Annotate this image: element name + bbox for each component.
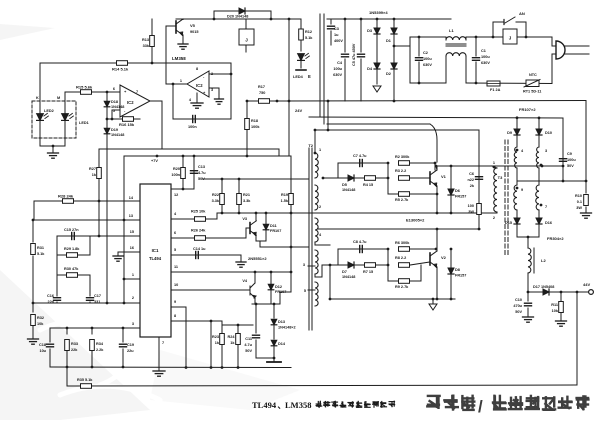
svg-text:7: 7 <box>136 90 138 94</box>
svg-text:FR304×2: FR304×2 <box>547 236 564 241</box>
ground <box>113 255 123 257</box>
node <box>393 45 396 48</box>
svg-text:D18: D18 <box>111 100 118 104</box>
svg-text:R16 15k: R16 15k <box>119 122 135 127</box>
svg-text:C19: C19 <box>127 343 134 347</box>
resistor R24 <box>236 334 241 345</box>
svg-text:NTC: NTC <box>529 73 537 77</box>
resistor R32 <box>32 303 34 312</box>
capacitor C11 <box>255 304 257 333</box>
svg-text:D14: D14 <box>278 342 286 346</box>
wire <box>64 92 66 101</box>
wire <box>338 248 388 250</box>
svg-text:D19: D19 <box>111 128 118 132</box>
wire <box>319 14 321 117</box>
resistor R9 <box>388 280 398 282</box>
wire <box>255 213 257 221</box>
wire <box>387 163 389 194</box>
svg-text:3W: 3W <box>468 210 474 214</box>
svg-text:10k: 10k <box>552 309 559 313</box>
svg-text:D7: D7 <box>342 270 347 274</box>
winding T3 sec3 <box>516 168 518 185</box>
capacitor C16 <box>56 275 58 296</box>
svg-text:4.7u: 4.7u <box>244 343 252 347</box>
diode D8 <box>450 249 452 299</box>
svg-text:R8 2.2: R8 2.2 <box>395 256 406 260</box>
fuse F1 <box>487 81 500 86</box>
svg-text:R15 5.6k: R15 5.6k <box>76 85 93 90</box>
ground <box>191 102 203 104</box>
resistor R5 <box>388 193 398 195</box>
svg-text:V5: V5 <box>190 23 196 28</box>
wire <box>436 166 438 170</box>
svg-text:100n: 100n <box>171 173 180 177</box>
resistor R3 <box>399 176 410 181</box>
svg-text:9: 9 <box>174 300 176 304</box>
svg-text:2: 2 <box>132 296 134 300</box>
resistor R27 <box>97 168 102 179</box>
diode D18 <box>106 92 108 119</box>
wire <box>216 213 218 219</box>
svg-text:LED4: LED4 <box>293 75 304 79</box>
transistor V2 <box>429 253 431 265</box>
svg-text:R6 300k: R6 300k <box>395 241 410 245</box>
svg-text:6: 6 <box>174 231 176 235</box>
resistor R2 <box>399 161 410 166</box>
resistor R12 <box>300 19 302 29</box>
svg-text:1N4148×2: 1N4148×2 <box>278 326 296 330</box>
ground <box>581 212 592 214</box>
inductor L2 <box>527 237 529 248</box>
resistor R35 <box>81 384 92 389</box>
plug <box>551 37 553 46</box>
svg-text:T2: T2 <box>308 143 313 148</box>
node <box>562 180 565 183</box>
diode D13 <box>273 304 275 318</box>
wire <box>89 236 91 255</box>
node <box>122 366 125 369</box>
terminal 44V <box>589 290 594 295</box>
wire mains bottom rail <box>247 100 586 103</box>
diode D4 <box>374 63 380 69</box>
wire <box>278 149 280 156</box>
wire <box>338 162 388 164</box>
ground <box>556 320 567 322</box>
resistor R17 <box>259 99 270 104</box>
svg-text:2: 2 <box>319 205 321 209</box>
svg-text:2: 2 <box>493 216 495 220</box>
svg-text:R17: R17 <box>258 85 265 89</box>
svg-text:1N4148: 1N4148 <box>342 188 355 192</box>
wire <box>39 63 41 101</box>
svg-text:C10: C10 <box>515 298 522 302</box>
diode D11 <box>265 213 267 241</box>
svg-text:D13: D13 <box>278 320 285 324</box>
svg-text:D16: D16 <box>545 221 552 225</box>
svg-text:R27: R27 <box>89 167 96 171</box>
wire 24V cap branch <box>562 118 564 181</box>
svg-text:9015: 9015 <box>190 30 198 34</box>
svg-text:D10: D10 <box>545 131 552 135</box>
svg-text:R26 24k: R26 24k <box>191 229 206 233</box>
svg-text:D9: D9 <box>507 131 512 135</box>
node <box>327 100 330 103</box>
resistor R28 <box>63 199 74 204</box>
ground <box>432 299 434 304</box>
diode D14 <box>273 326 275 339</box>
capacitor C17 <box>89 275 91 296</box>
wire <box>516 210 518 217</box>
svg-text:D5: D5 <box>342 183 347 187</box>
resistor R33 <box>66 328 68 334</box>
svg-text:D15: D15 <box>505 221 512 225</box>
wire C15 row / pin15 <box>57 235 140 237</box>
svg-text:8: 8 <box>174 314 176 318</box>
diode D16 <box>536 218 542 224</box>
wire pin9 <box>171 306 186 308</box>
node <box>360 18 363 21</box>
svg-text:R35 5.1k: R35 5.1k <box>77 378 93 382</box>
node <box>387 162 390 165</box>
svg-text:100u: 100u <box>481 55 490 59</box>
node <box>475 36 478 39</box>
wire pin7 ground <box>158 337 160 371</box>
svg-text:3: 3 <box>132 322 134 326</box>
wire <box>434 163 436 170</box>
svg-text:5: 5 <box>304 289 306 293</box>
svg-text:C7 4.7u: C7 4.7u <box>353 154 367 158</box>
diode D9 <box>514 129 520 135</box>
diode D17 <box>528 291 589 293</box>
svg-text:TL494: TL494 <box>252 400 277 410</box>
wire <box>256 240 266 242</box>
wire <box>237 325 239 368</box>
svg-text:LED2: LED2 <box>44 109 54 113</box>
svg-text:1: 1 <box>132 273 134 277</box>
node <box>185 366 188 369</box>
diode D10 <box>536 129 542 135</box>
svg-text:5.1k: 5.1k <box>305 36 313 40</box>
svg-text:C9: C9 <box>567 152 572 156</box>
decor <box>0 24 300 420</box>
wire output return <box>576 292 578 385</box>
svg-text:TL494: TL494 <box>149 256 162 261</box>
svg-text:15: 15 <box>130 230 134 234</box>
LED box dashed <box>32 101 76 138</box>
wire <box>185 307 187 368</box>
svg-text:5: 5 <box>174 248 176 252</box>
wire <box>56 236 58 275</box>
op-amp IC2b <box>187 71 209 97</box>
node <box>492 36 495 39</box>
node <box>123 219 126 222</box>
capacitor C19 <box>122 328 124 342</box>
capacitor C18 <box>49 328 51 342</box>
inductor L1 common-mode choke <box>446 37 466 40</box>
ground <box>28 338 39 340</box>
capacitor C1 <box>475 37 477 56</box>
wire <box>330 264 388 266</box>
wire <box>230 63 232 119</box>
svg-text:1: 1 <box>319 148 321 152</box>
wire pin3 ground <box>209 87 219 89</box>
svg-text:FR157: FR157 <box>455 195 466 199</box>
svg-text:D20 1N4148: D20 1N4148 <box>227 15 248 19</box>
svg-text:V3: V3 <box>242 217 247 221</box>
wire top rail <box>176 18 301 20</box>
svg-text:470u: 470u <box>513 304 522 308</box>
wire <box>517 180 586 182</box>
ground <box>153 370 165 372</box>
node <box>255 303 258 306</box>
wire rail C <box>202 178 308 180</box>
winding T3 sec4 <box>538 168 540 185</box>
node <box>32 219 35 222</box>
wire drive line B <box>318 228 480 230</box>
svg-text:3.3k: 3.3k <box>212 199 220 203</box>
wire bottom rail <box>50 366 291 369</box>
node <box>246 155 249 158</box>
node <box>32 302 35 305</box>
resistor R1 100 3W <box>477 204 482 215</box>
resistor R20 <box>182 156 184 189</box>
resistor R19 <box>290 156 292 193</box>
svg-text:T3: T3 <box>498 175 503 180</box>
wire <box>291 246 308 248</box>
svg-text:R24: R24 <box>228 335 236 339</box>
svg-text:/: / <box>478 397 483 416</box>
svg-text:630V: 630V <box>333 73 342 77</box>
wire R28 row / pin14 <box>34 200 140 202</box>
diode D5 <box>348 175 354 181</box>
svg-text:750: 750 <box>259 91 265 95</box>
relay contact J <box>503 29 517 44</box>
node <box>288 100 291 103</box>
node <box>111 118 114 121</box>
svg-text:C2: C2 <box>423 51 428 55</box>
svg-text:10k: 10k <box>37 322 44 326</box>
svg-text:2.2k: 2.2k <box>96 348 104 352</box>
svg-text:C14 1u: C14 1u <box>193 247 206 251</box>
wire drive line A <box>217 212 497 214</box>
svg-text:LM358: LM358 <box>172 56 186 61</box>
svg-text:33k: 33k <box>143 44 150 48</box>
svg-text:RT1 5D-11: RT1 5D-11 <box>523 90 541 94</box>
wire pin4 ground <box>196 93 198 103</box>
wire emitter node <box>252 303 280 305</box>
wire pin1 <box>124 278 140 280</box>
resistor R6 <box>399 247 410 252</box>
wire <box>436 229 438 251</box>
svg-text:3: 3 <box>211 88 213 92</box>
svg-text:R34: R34 <box>96 342 104 346</box>
resistor R8 <box>399 263 410 268</box>
svg-text:C13: C13 <box>198 165 205 169</box>
resistor R18 <box>246 101 248 156</box>
svg-text:FR157: FR157 <box>455 274 466 278</box>
transformer T3 core <box>504 140 506 255</box>
svg-text:3.3k: 3.3k <box>243 199 251 203</box>
diode D20 <box>213 11 215 19</box>
diode D6 <box>450 166 452 213</box>
winding T2-5 <box>315 282 318 306</box>
svg-text:C3: C3 <box>334 27 339 31</box>
wire rail B +7V <box>124 155 291 157</box>
ground <box>273 358 275 362</box>
node <box>344 18 347 21</box>
wire pin16 ground <box>118 251 140 253</box>
resistor R23 <box>220 334 225 345</box>
svg-text:22u: 22u <box>127 349 134 353</box>
ground <box>178 43 188 45</box>
winding T3 sec2 <box>536 147 539 168</box>
svg-text:630V: 630V <box>423 63 432 67</box>
node <box>182 188 185 191</box>
wire <box>527 273 529 292</box>
wire pin5 / C14 <box>171 254 241 256</box>
svg-text:L1: L1 <box>449 28 454 33</box>
node <box>106 118 109 121</box>
node <box>376 18 379 21</box>
svg-text:R31: R31 <box>37 246 44 250</box>
resistor R11 <box>560 292 562 301</box>
node <box>387 248 390 251</box>
node <box>66 327 69 330</box>
svg-text:LED1: LED1 <box>79 121 89 125</box>
wire long vertical <box>123 156 125 303</box>
svg-text:100u: 100u <box>423 57 432 61</box>
diode D19 <box>106 119 108 149</box>
resistor R21 <box>238 179 240 193</box>
svg-text:7: 7 <box>162 341 164 345</box>
svg-text:D17 1N5408: D17 1N5408 <box>533 285 554 289</box>
svg-text:+7V: +7V <box>151 159 158 163</box>
node <box>91 366 94 369</box>
op-amp IC2a <box>120 85 150 117</box>
resistor R34 <box>91 328 93 334</box>
resistor R30 <box>57 274 90 276</box>
capacitor C10 <box>527 292 529 301</box>
wire <box>40 62 231 64</box>
wire <box>221 321 223 368</box>
resistor R25 <box>195 217 206 222</box>
capacitor C15 <box>71 233 73 240</box>
node <box>238 178 241 181</box>
svg-text:1: 1 <box>180 79 182 83</box>
wire <box>478 130 480 229</box>
svg-text:R14 5.1k: R14 5.1k <box>112 67 129 72</box>
svg-text:50V: 50V <box>515 310 522 314</box>
resistor R10 <box>585 181 587 193</box>
node <box>237 324 240 327</box>
svg-text:100n: 100n <box>188 125 197 129</box>
wire <box>39 127 41 146</box>
wire pin6 / R26 <box>171 237 246 239</box>
wire <box>517 36 552 38</box>
wire line3 <box>315 129 479 131</box>
svg-text:11: 11 <box>174 265 178 269</box>
svg-text:R30 47k: R30 47k <box>64 267 79 271</box>
svg-text:100u: 100u <box>333 67 342 71</box>
svg-text:E13005×2: E13005×2 <box>406 218 425 223</box>
node <box>230 73 233 76</box>
node <box>527 291 530 294</box>
svg-text:L2: L2 <box>541 258 546 263</box>
wire <box>254 272 256 283</box>
ground <box>240 255 242 262</box>
node <box>210 366 213 369</box>
branding text <box>426 396 441 409</box>
transformer T2 core <box>308 148 310 330</box>
svg-text:24V: 24V <box>295 108 302 113</box>
wire <box>150 100 162 102</box>
svg-text:R12: R12 <box>305 30 312 34</box>
LED LED1 <box>64 101 66 113</box>
svg-text:R23: R23 <box>212 335 219 339</box>
node <box>418 36 421 39</box>
svg-text:AN: AN <box>519 11 525 16</box>
wire vertical x291 <box>290 205 292 292</box>
ground <box>215 98 224 100</box>
capacitor C2 <box>416 57 423 59</box>
wire pin12 <box>171 188 194 190</box>
diode D1 <box>393 19 395 27</box>
svg-text:10u: 10u <box>39 349 46 353</box>
svg-text:12: 12 <box>174 193 178 197</box>
svg-text:V1: V1 <box>441 174 447 179</box>
wire <box>585 101 587 182</box>
ground <box>523 316 534 318</box>
resistor R22 <box>221 179 223 193</box>
svg-text:5: 5 <box>113 109 115 113</box>
node <box>527 236 530 239</box>
wire <box>256 357 274 359</box>
ground <box>52 146 54 153</box>
node <box>172 83 175 86</box>
svg-text:C11: C11 <box>245 337 252 341</box>
resistor R29 <box>57 254 90 256</box>
diode D12 <box>270 272 272 303</box>
svg-text:E: E <box>308 74 311 79</box>
svg-text:R4 15: R4 15 <box>363 183 373 187</box>
resistor R13 <box>151 19 153 63</box>
node <box>273 303 276 306</box>
svg-text:3: 3 <box>303 263 305 267</box>
svg-text:0.1: 0.1 <box>577 200 582 204</box>
wire <box>436 165 563 167</box>
node <box>193 155 196 158</box>
wire <box>394 45 410 47</box>
winding T2-3 <box>315 218 318 242</box>
svg-text:D2: D2 <box>386 72 391 76</box>
node <box>246 100 249 103</box>
node <box>66 366 69 369</box>
node <box>213 18 216 21</box>
svg-text:C16: C16 <box>47 294 54 298</box>
svg-text:IC2: IC2 <box>196 83 203 88</box>
svg-text:D11: D11 <box>270 224 277 228</box>
svg-text:44V: 44V <box>583 282 590 287</box>
svg-text:50V: 50V <box>567 164 574 168</box>
node <box>221 366 224 369</box>
wire long bottom rail <box>66 367 68 386</box>
svg-text:3: 3 <box>545 149 547 153</box>
winding T2-2 <box>315 185 318 210</box>
capacitor C4 <box>344 19 346 52</box>
diode D2 <box>393 46 395 62</box>
svg-text:R20: R20 <box>173 167 180 171</box>
svg-text:5.1k: 5.1k <box>37 252 45 256</box>
